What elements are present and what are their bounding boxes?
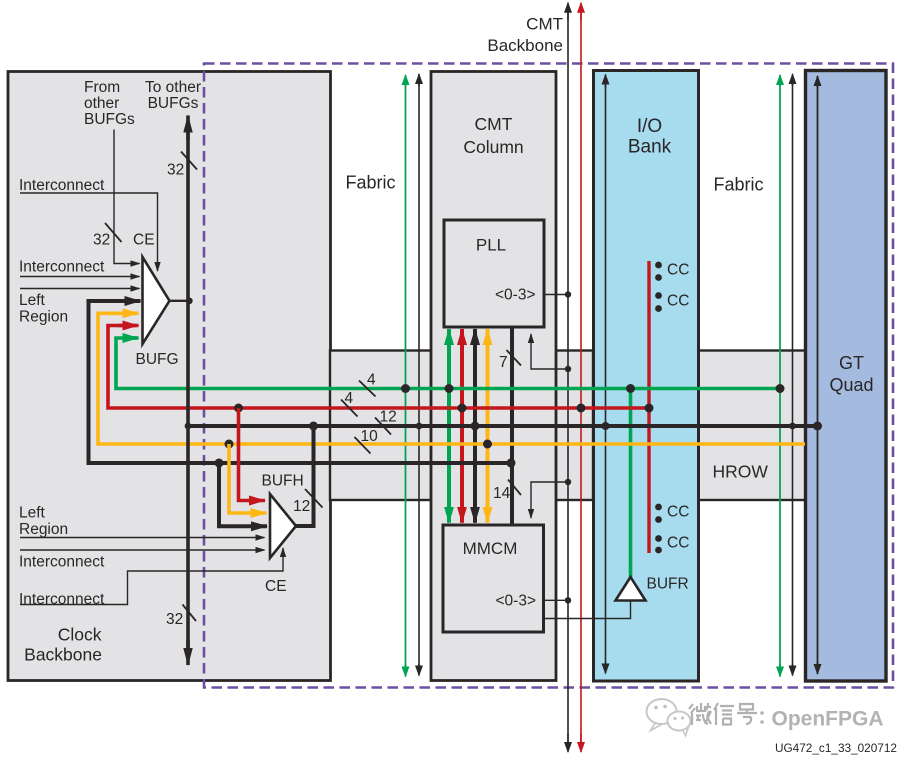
label Interconnect 4: [19, 591, 105, 608]
svg-text:BUFR: BUFR: [647, 576, 689, 593]
label Left Region upper: [19, 292, 68, 326]
svg-text:From: From: [84, 79, 120, 96]
junction dots on red bus: [234, 404, 654, 413]
wire clock backbone vertical 32: [186, 116, 190, 666]
wire PLL clkout 0-3: [544, 291, 571, 297]
watermark text WeChat id OpenFPGA: [689, 703, 885, 732]
wire GT quad clock vertical: [817, 76, 819, 674]
wire green horizontal bus (4): [116, 338, 780, 389]
wire BUFG output to clock backbone: [170, 298, 193, 304]
svg-text:CC: CC: [667, 293, 689, 310]
svg-text:CC: CC: [667, 262, 689, 279]
svg-text:BUFG: BUFG: [136, 351, 179, 368]
watermark wechat logo: [647, 699, 691, 736]
wire green CMT vertical: [447, 329, 451, 523]
label Clock Backbone: [24, 625, 102, 665]
label CE of BUFG: [133, 232, 155, 249]
MMCM box U2: [443, 525, 544, 632]
svg-text:32: 32: [167, 162, 184, 179]
svg-text:12: 12: [293, 498, 310, 515]
label To other BUFGs: [145, 79, 201, 112]
label Fabric left: [345, 173, 395, 193]
svg-text:Backbone: Backbone: [487, 36, 563, 55]
wire red branch to BUFH: [239, 408, 266, 501]
svg-text:Region: Region: [19, 521, 68, 538]
wire Interconnect 2b to BUFG: [20, 288, 140, 290]
svg-text:MMCM: MMCM: [463, 539, 518, 558]
svg-text:CE: CE: [133, 232, 155, 249]
label BUFG: [136, 351, 179, 368]
wire I/O bank thin clock vertical: [605, 75, 607, 674]
svg-text:Interconnect: Interconnect: [19, 554, 105, 571]
svg-text:10: 10: [361, 428, 379, 445]
svg-text:PLL: PLL: [476, 236, 506, 255]
wire black fabric vertical gap1: [418, 74, 420, 676]
label figure number UG472_c1_33_020712: [775, 741, 897, 755]
CC pin dots upper: [655, 262, 662, 312]
label CE of BUFH: [265, 578, 287, 595]
svg-text:Fabric: Fabric: [345, 173, 395, 193]
svg-text:Interconnect: Interconnect: [19, 177, 105, 194]
svg-text:BUFGs: BUFGs: [148, 95, 199, 112]
wire black fabric vertical gap3: [792, 74, 794, 676]
label MMCM 0-3: [495, 593, 536, 610]
label Left Region lower: [19, 505, 68, 539]
label 32 bottom with slash: [166, 605, 196, 629]
svg-text:32: 32: [166, 611, 183, 628]
svg-text:CMT: CMT: [526, 15, 563, 34]
svg-text:HROW: HROW: [713, 462, 769, 482]
svg-text:14: 14: [493, 485, 511, 502]
buffer BUFH: [270, 494, 296, 558]
svg-text:Column: Column: [463, 137, 523, 157]
label HROW: [713, 462, 769, 482]
wire Interconnect CE to BUFH: [20, 548, 283, 605]
svg-text:32: 32: [93, 232, 110, 249]
wire black CMT vertical: [473, 329, 477, 523]
svg-text:Interconnect: Interconnect: [19, 591, 105, 608]
svg-text:CC: CC: [667, 504, 689, 521]
wire Left Region black trunk to BUFG and HROW black net: [89, 301, 511, 463]
CC pin dots lower: [655, 504, 662, 554]
label PLL: [476, 236, 506, 255]
label PLL 0-3: [495, 287, 536, 304]
wire thin input a to BUFH: [20, 537, 265, 539]
label 4 red slash: [341, 390, 358, 417]
label 14 with slash: [493, 480, 521, 503]
wire red CMT vertical: [460, 329, 464, 523]
buffer BUFR: [616, 577, 646, 601]
wire green BUFR feed: [629, 389, 633, 578]
label CC lower2: [667, 535, 689, 552]
junction dots on black 463 net: [215, 459, 516, 468]
HROW band gap1: [330, 351, 431, 501]
label BUFR: [647, 576, 689, 593]
label 12 BUFH slash: [293, 489, 323, 515]
junction dots on yellow bus: [225, 440, 493, 449]
wire CMT backbone black vertical: [567, 3, 569, 752]
svg-text:Backbone: Backbone: [24, 645, 102, 665]
label From other BUFGs: [84, 79, 135, 128]
svg-text:Quad: Quad: [829, 375, 873, 395]
label Interconnect 1: [19, 177, 105, 194]
label 32 CE with slash: [93, 223, 122, 249]
label CC lower1: [667, 504, 689, 521]
wire From other BUFGs to BUFG CE mux input: [114, 130, 140, 264]
wire red horizontal bus (4): [108, 326, 649, 409]
label Fabric right: [713, 175, 763, 195]
CMT Column box: [431, 72, 556, 681]
label Interconnect 3: [19, 554, 105, 571]
wire black branch to BUFH: [219, 463, 267, 526]
wire MMCM CE from CMT backbone: [531, 479, 571, 518]
label 12 black slash: [375, 409, 397, 435]
wire MMCM clkout 0-3: [543, 597, 571, 603]
wire yellow branch to BUFH: [229, 444, 267, 513]
svg-text:Left: Left: [19, 505, 46, 522]
label 10 yellow slash: [355, 428, 379, 454]
label Interconnect 2: [19, 259, 105, 276]
wire yellow horizontal bus (10): [98, 313, 805, 444]
label CC upper2: [667, 293, 689, 310]
svg-text:CE: CE: [265, 578, 287, 595]
label MMCM: [463, 539, 518, 558]
svg-text:GT: GT: [839, 353, 864, 373]
wire BUFH output riser to 12 bus: [296, 426, 314, 526]
svg-text:UG472_c1_33_020712: UG472_c1_33_020712: [775, 741, 897, 755]
wire PLL CE from CMT backbone: [531, 334, 571, 372]
svg-text:Region: Region: [19, 309, 68, 326]
svg-text:BUFH: BUFH: [262, 473, 304, 490]
wire CMT 7/14 trunk: [510, 327, 514, 525]
svg-text:<0-3>: <0-3>: [495, 287, 536, 304]
svg-text:4: 4: [367, 372, 376, 389]
wire green fabric vertical gap3: [779, 75, 781, 677]
svg-text:OpenFPGA: OpenFPGA: [772, 708, 884, 731]
svg-text:Clock: Clock: [58, 625, 102, 645]
svg-text:Interconnect: Interconnect: [19, 259, 105, 276]
label GT Quad: [829, 353, 873, 395]
label 32 top with slash: [167, 152, 197, 179]
HROW band gap2: [555, 351, 593, 501]
label CMT Backbone: [487, 15, 563, 56]
PLL box U1: [444, 220, 544, 327]
svg-text:Bank: Bank: [628, 137, 672, 158]
wire green fabric vertical gap1: [405, 75, 407, 677]
svg-text:I/O: I/O: [637, 116, 662, 137]
label CMT Column: [463, 114, 523, 157]
buffer BUFG: [143, 257, 170, 344]
wire BUFR output to MMCM: [543, 601, 631, 619]
HROW band gap3: [698, 351, 806, 501]
wire CMT backbone red vertical: [580, 3, 582, 752]
label BUFH: [262, 473, 304, 490]
svg-text:Fabric: Fabric: [713, 175, 763, 195]
GT Quad box: [806, 71, 887, 682]
svg-text:<0-3>: <0-3>: [495, 593, 536, 610]
svg-text:12: 12: [380, 409, 397, 426]
label CC upper1: [667, 262, 689, 279]
wire black HROW bus 12: [185, 422, 822, 431]
wire Interconnect 1 to BUFG CE: [20, 193, 158, 271]
svg-text:BUFGs: BUFGs: [84, 111, 135, 128]
label I/O Bank: [628, 116, 672, 158]
svg-text:other: other: [84, 95, 119, 112]
svg-text:To other: To other: [145, 79, 201, 96]
svg-text:CMT: CMT: [475, 114, 513, 134]
label 4 green slash: [359, 372, 376, 397]
wire Interconnect 2a to BUFG: [20, 276, 140, 278]
svg-text:4: 4: [345, 390, 354, 407]
label 7 with slash: [499, 350, 521, 371]
wire red CC line in I/O bank: [647, 261, 650, 553]
wire yellow CMT vertical: [486, 329, 490, 523]
wire thin input b to BUFH: [20, 549, 265, 551]
svg-text:Left: Left: [19, 292, 46, 309]
purple CMT backbone boundary (dashed): [204, 64, 893, 688]
I/O Bank box: [594, 71, 699, 682]
junction dots on green bus: [401, 384, 785, 393]
region Clock Backbone box: [8, 72, 331, 681]
svg-text:7: 7: [499, 354, 508, 371]
svg-text:CC: CC: [667, 535, 689, 552]
